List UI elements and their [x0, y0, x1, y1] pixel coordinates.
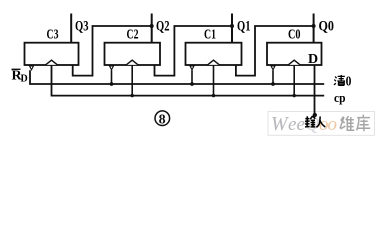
svg-text:8: 8 — [159, 113, 166, 128]
flip-flop box C0 — [267, 43, 322, 65]
node dot cp C0 — [293, 94, 296, 97]
wire cp pin C2 — [131, 65, 133, 96]
RD inverting triangle C2 — [110, 66, 114, 70]
flip-flop box C3 — [25, 43, 79, 65]
label 输入 (serial input) — [305, 116, 325, 127]
svg-text:e: e — [288, 114, 296, 135]
wire cp pin C1 — [213, 65, 215, 96]
clock caret C2 — [126, 60, 138, 65]
svg-text:D: D — [308, 52, 318, 67]
wire Q0 output vertical — [313, 14, 315, 43]
clock caret C1 — [208, 60, 220, 65]
label RD (clear input) — [12, 69, 28, 85]
flip-flop box C2 — [105, 43, 161, 65]
node dot RD C0 — [271, 82, 275, 86]
node dot RD C1 — [190, 82, 194, 86]
wire Q3 output vertical — [70, 14, 72, 43]
watermark 维 — [340, 116, 354, 130]
svg-text:e: e — [297, 114, 305, 135]
wire RD pin C2 — [111, 70, 113, 84]
figure number 8 circled — [155, 111, 170, 128]
svg-text:C2: C2 — [127, 28, 139, 43]
wire RD pin C1 — [191, 70, 193, 84]
wire clock bus (cp) — [52, 65, 325, 96]
svg-text:C0: C0 — [288, 28, 301, 43]
wire Q1 to D of C2 — [155, 26, 233, 76]
node Q2 junction dot — [150, 24, 154, 28]
svg-text:o: o — [328, 114, 338, 135]
wire Q0 to D of C1 — [236, 26, 314, 76]
RD inverting triangle C0 — [271, 66, 275, 70]
node dot cp C2 — [131, 94, 134, 97]
wire cp pin C0 — [293, 65, 295, 96]
watermark 库 — [357, 115, 371, 132]
RD inverting triangle C1 — [190, 66, 194, 70]
wire Q2 output vertical — [151, 14, 153, 43]
flip-flop box C1 — [186, 43, 242, 65]
wire clear bus (RD) — [30, 70, 324, 84]
node dot RD C2 — [110, 82, 114, 86]
svg-text:Q3: Q3 — [75, 19, 89, 35]
clock caret C3 — [46, 60, 58, 65]
wire RD pin C0 — [272, 70, 274, 84]
wire Q2 to D of C3 — [73, 26, 152, 76]
svg-text:Q0: Q0 — [319, 19, 335, 35]
node Q1 junction dot — [230, 24, 234, 28]
RD inverting triangle C3 — [30, 66, 34, 70]
node input terminal dot — [313, 113, 317, 117]
watermark box — [268, 112, 375, 136]
wire Q1 output vertical — [231, 14, 233, 43]
svg-text:D: D — [21, 74, 28, 85]
svg-text:cp: cp — [334, 90, 346, 105]
node dot cp C1 — [212, 94, 215, 97]
svg-text:0: 0 — [346, 73, 352, 88]
node Q0 junction dot — [312, 24, 316, 28]
svg-text:Q1: Q1 — [237, 19, 251, 35]
wire serial input to D of C0 — [314, 65, 316, 115]
label 清0 (clear) — [334, 75, 345, 86]
svg-text:C1: C1 — [204, 28, 216, 43]
svg-text:C3: C3 — [47, 28, 59, 43]
svg-text:Q2: Q2 — [156, 19, 170, 35]
clock caret C0 — [288, 60, 300, 65]
svg-text:W: W — [271, 113, 290, 135]
